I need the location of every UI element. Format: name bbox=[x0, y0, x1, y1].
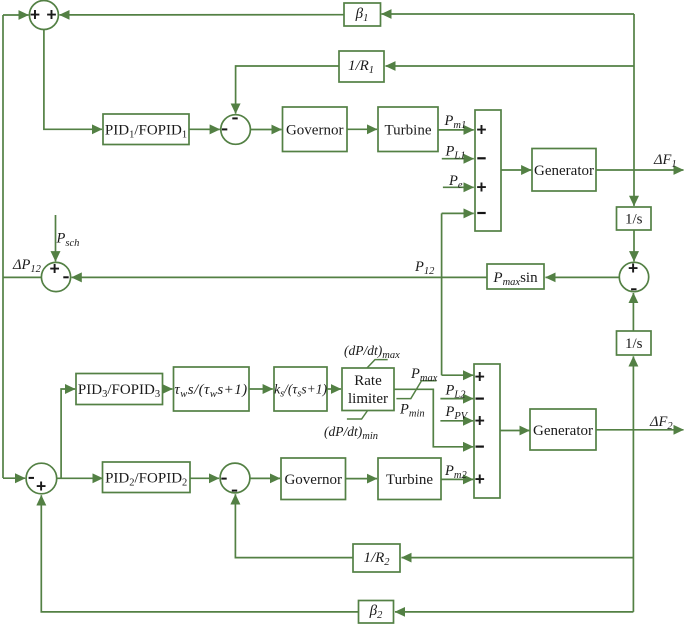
svg-text:+: + bbox=[475, 367, 485, 387]
svg-text:(dP/dt)max: (dP/dt)max bbox=[344, 343, 400, 361]
svg-text:limiter: limiter bbox=[348, 391, 388, 407]
svg-text:PL2: PL2 bbox=[445, 383, 467, 401]
svg-text:ΔF2: ΔF2 bbox=[649, 414, 673, 432]
svg-text:PL1: PL1 bbox=[445, 144, 466, 162]
svg-text:+: + bbox=[628, 258, 638, 278]
svg-text:Pe: Pe bbox=[448, 173, 463, 191]
svg-text:Turbine: Turbine bbox=[385, 123, 432, 139]
svg-text:+: + bbox=[30, 5, 40, 25]
svg-text:Pmax: Pmax bbox=[410, 366, 438, 384]
svg-text:+: + bbox=[476, 119, 486, 139]
svg-text:1/s: 1/s bbox=[625, 212, 643, 228]
svg-text:Turbine: Turbine bbox=[386, 472, 433, 488]
svg-text:Pmin: Pmin bbox=[399, 402, 425, 420]
svg-text:PID3/FOPID3: PID3/FOPID3 bbox=[78, 382, 160, 400]
svg-text:1/s: 1/s bbox=[625, 336, 643, 352]
svg-text:+: + bbox=[476, 177, 486, 197]
svg-text:Rate: Rate bbox=[354, 373, 382, 389]
svg-text:ΔF1: ΔF1 bbox=[653, 152, 677, 170]
svg-text:P12: P12 bbox=[414, 259, 435, 277]
svg-text:Governor: Governor bbox=[286, 123, 343, 139]
svg-text:Pm2: Pm2 bbox=[444, 463, 467, 481]
svg-text:PID1/FOPID1: PID1/FOPID1 bbox=[105, 123, 187, 141]
svg-text:+: + bbox=[49, 258, 59, 278]
svg-text:Generator: Generator bbox=[534, 163, 594, 179]
svg-text:PPV: PPV bbox=[445, 404, 469, 422]
svg-text:PID2/FOPID2: PID2/FOPID2 bbox=[105, 471, 187, 489]
svg-text:Generator: Generator bbox=[533, 423, 593, 439]
svg-text:+: + bbox=[46, 5, 56, 25]
svg-text:(dP/dt)min: (dP/dt)min bbox=[324, 424, 378, 442]
svg-text:+: + bbox=[36, 476, 46, 496]
svg-text:Psch: Psch bbox=[56, 231, 80, 250]
svg-text:Pm1: Pm1 bbox=[444, 113, 467, 131]
svg-text:ΔP12: ΔP12 bbox=[12, 257, 42, 275]
svg-text:Governor: Governor bbox=[284, 472, 341, 488]
svg-text:+: + bbox=[475, 469, 485, 489]
svg-text:+: + bbox=[475, 411, 485, 431]
